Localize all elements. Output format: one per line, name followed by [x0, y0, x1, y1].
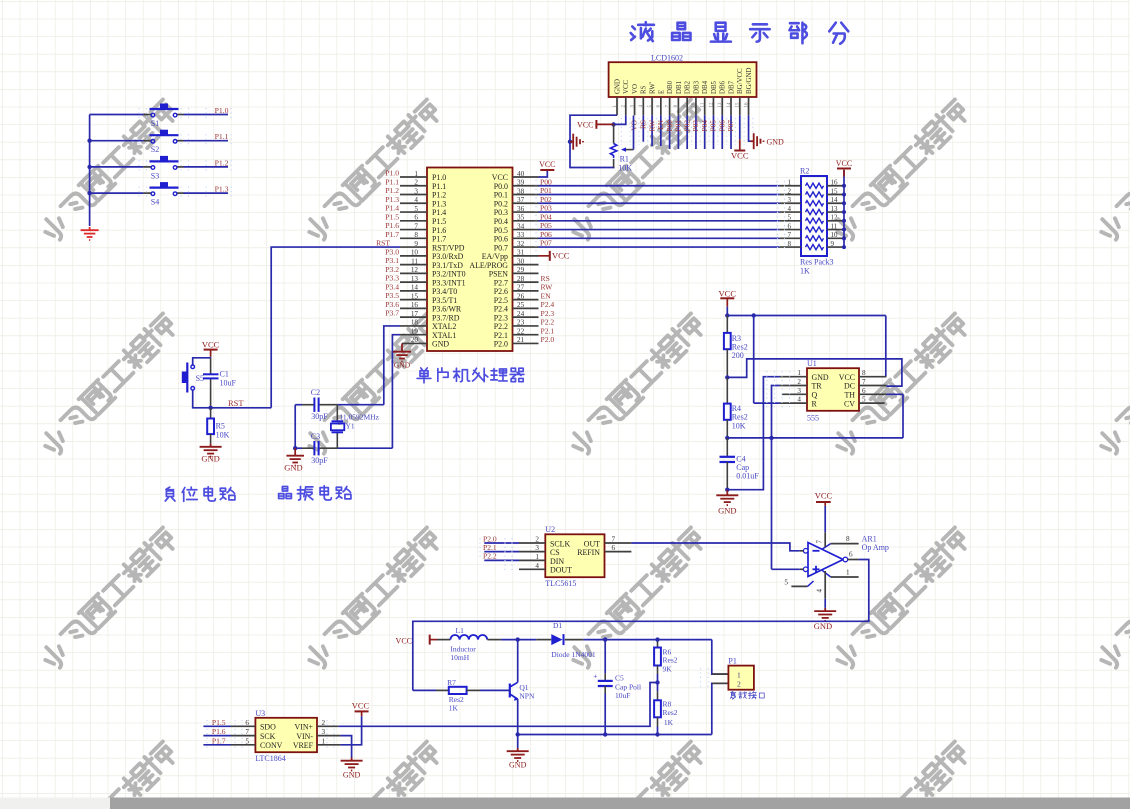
svg-text:P3.1: P3.1 [385, 256, 399, 265]
svg-text:VCC: VCC [539, 160, 555, 169]
svg-text:BG/GND: BG/GND [746, 68, 753, 94]
svg-text:P3.3/INT1: P3.3/INT1 [432, 278, 466, 287]
svg-text:Diode 1N4001: Diode 1N4001 [551, 650, 596, 659]
svg-text:RS: RS [541, 274, 550, 283]
svg-text:PSEN: PSEN [489, 270, 509, 279]
svg-text:35: 35 [517, 214, 525, 222]
svg-text:P2.2: P2.2 [494, 322, 508, 331]
svg-text:VCC: VCC [352, 701, 370, 711]
svg-text:Res2: Res2 [663, 708, 678, 717]
svg-text:P1.2: P1.2 [385, 186, 399, 195]
svg-text:SCK: SCK [260, 732, 276, 741]
svg-text:P3.2/INT0: P3.2/INT0 [432, 270, 466, 279]
svg-text:21: 21 [517, 336, 525, 344]
svg-text:U3: U3 [255, 709, 265, 718]
svg-text:15: 15 [411, 292, 419, 300]
svg-text:19: 19 [411, 327, 419, 335]
svg-text:DB1: DB1 [676, 80, 683, 94]
svg-text:RS: RS [641, 85, 648, 94]
svg-text:+: + [593, 672, 597, 681]
svg-text:DIN: DIN [550, 557, 564, 566]
svg-text:P3.4: P3.4 [385, 282, 399, 291]
svg-text:VCC: VCC [815, 491, 833, 501]
svg-text:16: 16 [411, 301, 419, 309]
svg-text:5: 5 [784, 579, 788, 587]
svg-text:P1.5: P1.5 [212, 718, 226, 727]
svg-text:28: 28 [517, 275, 525, 283]
svg-text:VIN-: VIN- [296, 732, 313, 741]
svg-text:P2.2: P2.2 [483, 552, 497, 561]
svg-text:31: 31 [517, 249, 525, 257]
svg-text:R1: R1 [620, 155, 629, 164]
svg-text:26: 26 [517, 292, 525, 300]
svg-text:1: 1 [846, 569, 850, 577]
svg-text:P1.3: P1.3 [432, 199, 446, 208]
svg-text:8: 8 [414, 231, 418, 239]
svg-text:9: 9 [414, 240, 418, 248]
svg-text:GND: GND [201, 454, 219, 464]
svg-text:Op Amp: Op Amp [862, 543, 889, 552]
svg-text:P3.7/RD: P3.7/RD [432, 313, 460, 322]
svg-text:P1.7: P1.7 [432, 235, 446, 244]
svg-text:4: 4 [414, 196, 418, 204]
svg-text:ALE/PROG: ALE/PROG [469, 261, 508, 270]
svg-text:P03: P03 [540, 204, 552, 213]
svg-text:EN: EN [656, 119, 665, 130]
svg-text:7: 7 [788, 231, 792, 239]
svg-text:DB2: DB2 [685, 80, 692, 94]
svg-text:15: 15 [831, 187, 839, 195]
svg-text:R5: R5 [216, 422, 225, 431]
svg-text:6: 6 [788, 222, 792, 230]
svg-text:DC: DC [844, 382, 855, 391]
svg-text:1: 1 [535, 553, 539, 561]
svg-text:9: 9 [831, 240, 835, 248]
svg-text:4: 4 [535, 562, 539, 570]
svg-text:CV: CV [844, 399, 855, 408]
svg-text:S3: S3 [151, 171, 159, 180]
svg-text:P1.1: P1.1 [432, 182, 446, 191]
svg-text:R2: R2 [800, 167, 809, 176]
svg-text:R: R [812, 399, 818, 408]
svg-text:12: 12 [709, 102, 714, 108]
svg-text:BG/VCC: BG/VCC [737, 68, 744, 94]
svg-text:VREF: VREF [293, 741, 314, 750]
svg-text:12: 12 [831, 214, 839, 222]
svg-text:1K: 1K [449, 704, 459, 713]
svg-text:L1: L1 [456, 626, 465, 635]
svg-text:R7: R7 [447, 678, 456, 687]
svg-text:CS: CS [550, 548, 560, 557]
svg-text:P3.0/RxD: P3.0/RxD [432, 252, 464, 261]
svg-text:P1.4: P1.4 [385, 204, 399, 213]
svg-text:Q: Q [812, 391, 818, 400]
svg-text:10uF: 10uF [220, 379, 237, 388]
svg-text:P06: P06 [540, 230, 552, 239]
svg-text:RS: RS [639, 120, 648, 129]
svg-text:10: 10 [831, 231, 839, 239]
svg-text:39: 39 [517, 179, 525, 187]
svg-text:P07: P07 [726, 120, 735, 132]
svg-text:P1.0: P1.0 [432, 173, 446, 182]
svg-text:DOUT: DOUT [550, 566, 572, 575]
svg-text:12: 12 [411, 266, 419, 274]
svg-text:P3.7: P3.7 [385, 309, 399, 318]
svg-text:P1.2: P1.2 [215, 158, 229, 167]
svg-text:P0.3: P0.3 [494, 208, 508, 217]
svg-text:TH: TH [844, 391, 855, 400]
svg-text:TR: TR [812, 382, 823, 391]
svg-text:4: 4 [816, 589, 824, 593]
svg-text:1: 1 [737, 670, 741, 679]
svg-text:4: 4 [788, 205, 792, 213]
svg-text:P2.0: P2.0 [541, 335, 555, 344]
svg-text:P1: P1 [728, 657, 736, 666]
svg-text:VCC: VCC [577, 120, 593, 129]
svg-text:GND: GND [812, 373, 829, 382]
svg-text:P1.6: P1.6 [212, 727, 226, 736]
svg-text:1K: 1K [664, 718, 674, 727]
svg-text:Res2: Res2 [732, 413, 748, 422]
svg-text:38: 38 [517, 187, 525, 195]
svg-text:REFIN: REFIN [577, 548, 600, 557]
svg-text:P2.2: P2.2 [541, 318, 555, 327]
svg-text:9K: 9K [663, 665, 673, 674]
svg-text:30pF: 30pF [311, 412, 328, 421]
svg-text:NPN: NPN [519, 692, 535, 701]
svg-text:DB4: DB4 [702, 80, 709, 94]
svg-text:VCC: VCC [396, 637, 412, 646]
svg-text:5: 5 [414, 205, 418, 213]
svg-text:P07: P07 [540, 239, 552, 248]
svg-text:P2.7: P2.7 [494, 278, 508, 287]
svg-text:VCC: VCC [731, 150, 749, 160]
svg-text:GND: GND [284, 463, 302, 473]
svg-text:25: 25 [517, 301, 525, 309]
svg-text:U1: U1 [807, 359, 817, 368]
svg-text:P06: P06 [717, 120, 726, 132]
svg-text:11: 11 [411, 257, 418, 265]
svg-text:P2.1: P2.1 [483, 543, 497, 552]
svg-text:C2: C2 [311, 388, 320, 397]
svg-text:GND: GND [718, 506, 736, 516]
svg-text:13: 13 [831, 205, 839, 213]
svg-text:P2.4: P2.4 [494, 305, 508, 314]
svg-text:17: 17 [411, 310, 419, 318]
svg-text:37: 37 [517, 196, 525, 204]
svg-text:VCC: VCC [492, 173, 508, 182]
svg-text:P1.0: P1.0 [215, 106, 229, 115]
svg-text:P1.7: P1.7 [212, 736, 226, 745]
svg-text:15: 15 [736, 102, 741, 108]
svg-text:RST: RST [228, 398, 244, 408]
svg-text:6: 6 [849, 551, 853, 559]
svg-text:Y1: Y1 [346, 422, 355, 431]
svg-text:DB6: DB6 [720, 80, 727, 94]
svg-text:RW': RW' [649, 82, 656, 94]
svg-text:EA/Vpp: EA/Vpp [482, 252, 508, 261]
svg-text:P0.6: P0.6 [494, 235, 508, 244]
svg-text:U2: U2 [545, 525, 555, 534]
svg-text:P1.3: P1.3 [385, 195, 399, 204]
svg-text:P2.3: P2.3 [494, 313, 508, 322]
svg-text:2: 2 [737, 680, 741, 689]
svg-text:P01: P01 [674, 120, 683, 132]
svg-text:LCD1602: LCD1602 [651, 54, 683, 63]
svg-text:S5: S5 [196, 374, 204, 383]
svg-text:P00: P00 [540, 177, 552, 186]
svg-text:GND: GND [343, 771, 361, 780]
svg-text:3: 3 [535, 544, 539, 552]
svg-text:P2.0: P2.0 [494, 340, 508, 349]
svg-text:VIN+: VIN+ [295, 723, 314, 732]
svg-text:36: 36 [517, 205, 525, 213]
svg-text:14: 14 [727, 102, 732, 108]
svg-text:VCC: VCC [202, 340, 220, 350]
svg-text:32: 32 [517, 240, 525, 248]
svg-text:VCC: VCC [839, 373, 855, 382]
svg-text:P3.5: P3.5 [385, 291, 399, 300]
svg-text:DB5: DB5 [711, 80, 718, 94]
svg-text:16: 16 [831, 179, 839, 187]
svg-text:7: 7 [245, 728, 249, 736]
svg-text:P3.1/TxD: P3.1/TxD [432, 261, 463, 270]
svg-text:33: 33 [517, 231, 525, 239]
svg-text:P1.4: P1.4 [432, 208, 446, 217]
svg-text:EN: EN [541, 291, 552, 300]
svg-text:C5: C5 [615, 674, 624, 683]
svg-text:P1.5: P1.5 [385, 212, 399, 221]
svg-text:P1.6: P1.6 [385, 221, 399, 230]
svg-text:2: 2 [414, 179, 418, 187]
svg-text:10uF: 10uF [615, 691, 630, 700]
svg-text:34: 34 [517, 222, 525, 230]
svg-text:6: 6 [245, 719, 249, 727]
svg-text:18: 18 [411, 319, 419, 327]
svg-text:10K: 10K [216, 431, 230, 440]
svg-text:P0.2: P0.2 [494, 199, 508, 208]
svg-text:Res2: Res2 [663, 656, 678, 665]
svg-text:TLC5615: TLC5615 [545, 579, 576, 588]
svg-text:1: 1 [414, 170, 418, 178]
svg-text:3: 3 [414, 187, 418, 195]
svg-text:P2.5: P2.5 [494, 296, 508, 305]
svg-text:8: 8 [846, 535, 850, 543]
svg-text:GND: GND [432, 340, 449, 349]
svg-text:RW: RW [541, 283, 554, 292]
svg-text:P3.6/WR: P3.6/WR [432, 305, 462, 314]
svg-text:P0.4: P0.4 [494, 217, 508, 226]
svg-text:P1.6: P1.6 [432, 226, 446, 235]
svg-text:14: 14 [411, 284, 419, 292]
svg-text:C1: C1 [220, 370, 229, 379]
svg-text:P01: P01 [540, 186, 552, 195]
svg-text:40: 40 [517, 170, 525, 178]
svg-text:24: 24 [517, 310, 525, 318]
svg-text:DB0: DB0 [667, 80, 674, 94]
svg-text:P00: P00 [665, 120, 674, 132]
svg-text:P05: P05 [709, 120, 718, 132]
svg-text:27: 27 [517, 284, 525, 292]
svg-text:23: 23 [517, 319, 525, 327]
svg-text:5: 5 [788, 214, 792, 222]
svg-text:VCC: VCC [552, 251, 570, 261]
svg-text:P04: P04 [700, 120, 709, 132]
svg-text:1K: 1K [800, 267, 810, 276]
svg-text:5: 5 [245, 737, 249, 745]
svg-text:LTC1864: LTC1864 [255, 754, 285, 763]
svg-text:29: 29 [517, 266, 525, 274]
svg-text:11: 11 [831, 222, 838, 230]
svg-text:6: 6 [414, 214, 418, 222]
svg-text:P2.4: P2.4 [541, 300, 555, 309]
svg-text:555: 555 [807, 414, 819, 423]
svg-text:22: 22 [517, 327, 525, 335]
svg-text:D1: D1 [553, 621, 562, 630]
svg-text:7: 7 [414, 222, 418, 230]
svg-text:GND: GND [614, 79, 621, 94]
svg-text:C3: C3 [311, 432, 320, 441]
svg-text:10K: 10K [618, 164, 632, 173]
svg-text:P3.2: P3.2 [385, 265, 399, 274]
svg-text:VCC: VCC [836, 159, 852, 168]
svg-text:2: 2 [535, 536, 539, 544]
svg-text:GND: GND [767, 138, 785, 147]
svg-text:30pF: 30pF [311, 456, 328, 465]
svg-text:P1.1: P1.1 [385, 177, 399, 186]
svg-text:RST/VPD: RST/VPD [432, 243, 465, 252]
svg-text:200: 200 [732, 351, 744, 360]
svg-text:GND: GND [509, 761, 527, 770]
svg-text:E: E [658, 90, 665, 94]
svg-text:DB3: DB3 [693, 80, 700, 94]
svg-text:7: 7 [816, 540, 824, 544]
svg-text:13: 13 [718, 102, 723, 108]
svg-text:RW: RW [647, 120, 656, 132]
svg-text:P0.7: P0.7 [494, 243, 508, 252]
svg-text:13: 13 [411, 275, 419, 283]
svg-text:P1.0: P1.0 [385, 169, 399, 178]
svg-text:2: 2 [788, 187, 792, 195]
svg-text:10mH: 10mH [450, 653, 469, 662]
svg-text:S1: S1 [151, 119, 159, 128]
svg-text:P1.7: P1.7 [385, 230, 399, 239]
svg-text:P2.1: P2.1 [541, 326, 555, 335]
svg-text:P02: P02 [540, 195, 552, 204]
svg-text:10: 10 [692, 102, 697, 108]
svg-text:P3.5/T1: P3.5/T1 [432, 296, 457, 305]
svg-text:16: 16 [744, 102, 749, 108]
svg-text:VCC: VCC [719, 289, 737, 299]
svg-text:S2: S2 [151, 145, 159, 154]
svg-text:11: 11 [701, 102, 706, 107]
svg-text:30: 30 [517, 257, 525, 265]
svg-text:XTAL2: XTAL2 [432, 322, 456, 331]
svg-text:1: 1 [788, 179, 792, 187]
svg-text:S4: S4 [151, 198, 159, 207]
svg-text:GND: GND [814, 621, 832, 631]
svg-text:14: 14 [831, 196, 839, 204]
svg-text:20: 20 [411, 336, 419, 344]
svg-text:P3.6: P3.6 [385, 300, 399, 309]
svg-text:11.0592MHz: 11.0592MHz [339, 413, 379, 422]
svg-text:P1.5: P1.5 [432, 217, 446, 226]
svg-text:10K: 10K [732, 422, 746, 431]
svg-text:GND: GND [394, 361, 411, 370]
svg-text:DB7: DB7 [728, 80, 735, 94]
svg-text:P3.4/T0: P3.4/T0 [432, 287, 457, 296]
svg-text:CONV: CONV [260, 741, 283, 750]
svg-text:SDO: SDO [260, 723, 276, 732]
svg-text:P3.0: P3.0 [385, 247, 399, 256]
svg-text:P1.1: P1.1 [215, 132, 229, 141]
svg-text:P0.1: P0.1 [494, 191, 508, 200]
svg-text:P02: P02 [682, 120, 691, 132]
svg-text:XTAL1: XTAL1 [432, 331, 456, 340]
svg-text:VCC: VCC [623, 79, 630, 94]
svg-text:P03: P03 [691, 120, 700, 132]
svg-text:P04: P04 [540, 212, 552, 221]
svg-text:P2.1: P2.1 [494, 331, 508, 340]
svg-text:P1.3: P1.3 [215, 185, 229, 194]
svg-text:P0.5: P0.5 [494, 226, 508, 235]
svg-text:P0.0: P0.0 [494, 182, 508, 191]
svg-text:8: 8 [788, 240, 792, 248]
svg-text:VO: VO [632, 84, 639, 94]
svg-text:P2.6: P2.6 [494, 287, 508, 296]
svg-text:P2.3: P2.3 [541, 309, 555, 318]
svg-text:0.01uF: 0.01uF [736, 471, 759, 480]
svg-text:10: 10 [411, 249, 419, 257]
svg-text:Res Pack3: Res Pack3 [800, 258, 834, 267]
svg-text:P05: P05 [540, 221, 552, 230]
svg-text:3: 3 [788, 196, 792, 204]
svg-text:P3.3: P3.3 [385, 274, 399, 283]
svg-text:P1.2: P1.2 [432, 191, 446, 200]
